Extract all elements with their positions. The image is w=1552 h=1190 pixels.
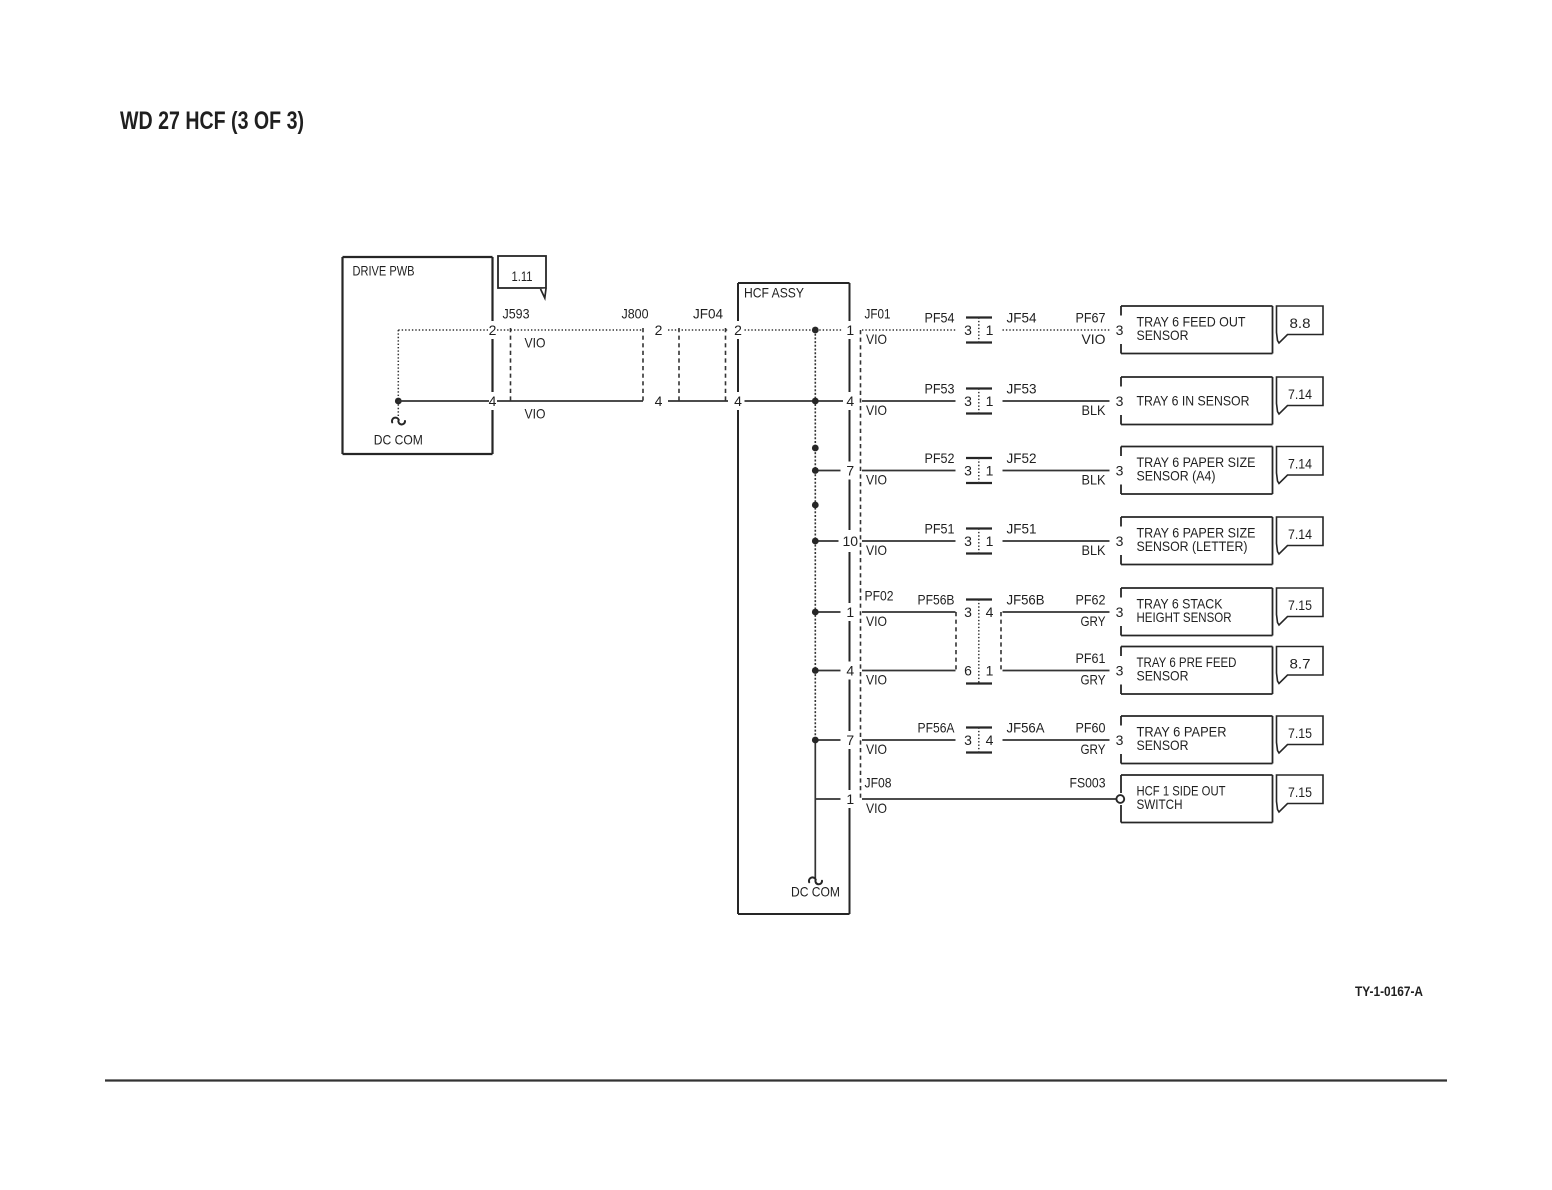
wire PF52 left segment <box>862 470 956 472</box>
svg-text:VIO: VIO <box>525 406 546 422</box>
svg-text:3: 3 <box>964 533 972 549</box>
svg-text:SWITCH: SWITCH <box>1137 796 1183 812</box>
svg-text:3: 3 <box>1116 604 1124 620</box>
svg-text:4: 4 <box>846 393 854 409</box>
svg-text:JF04: JF04 <box>693 306 723 322</box>
svg-text:VIO: VIO <box>866 472 887 488</box>
connector J593 dashed line <box>510 328 512 403</box>
node trunk junction y470.5 <box>812 467 819 474</box>
svg-text:HEIGHT SENSOR: HEIGHT SENSOR <box>1137 609 1232 625</box>
callout flag 1.11 <box>498 256 546 288</box>
node trunk junction y505 <box>812 502 819 509</box>
svg-text:GRY: GRY <box>1081 613 1107 629</box>
svg-text:1: 1 <box>986 663 994 679</box>
svg-text:JF56A: JF56A <box>1007 720 1046 736</box>
wire J593-4 to J800-4 VIO <box>497 400 643 402</box>
wire JF08-1 to FS003 <box>862 798 1116 800</box>
svg-text:3: 3 <box>1116 463 1124 479</box>
connector pair symbol PF53/JF53 <box>966 387 992 389</box>
svg-text:3: 3 <box>1116 732 1124 748</box>
component box TRAY 6 PAPER SIZE SENSOR (A4) <box>1121 446 1273 448</box>
svg-text:VIO: VIO <box>866 402 887 418</box>
svg-text:4: 4 <box>489 393 497 409</box>
wire PF54 left segment <box>862 329 956 331</box>
wire JF52 right segment <box>1003 470 1110 472</box>
svg-text:PF54: PF54 <box>925 310 955 326</box>
wire drive pwb dc com drop <box>397 401 399 417</box>
svg-text:SENSOR: SENSOR <box>1137 327 1189 343</box>
callout flag 7.15 <box>1277 716 1324 753</box>
wire hcf internal row1 <box>745 329 844 331</box>
callout flag 8.8 <box>1277 306 1324 343</box>
svg-text:1: 1 <box>846 322 854 338</box>
wire JF53 right segment <box>1003 400 1110 402</box>
node trunk junction y612 <box>812 609 819 616</box>
svg-text:3: 3 <box>964 393 972 409</box>
svg-text:BLK: BLK <box>1082 542 1107 558</box>
callout flag 7.15 <box>1277 588 1324 625</box>
svg-text:PF56A: PF56A <box>918 720 956 736</box>
svg-text:VIO: VIO <box>1082 331 1106 347</box>
svg-text:1: 1 <box>986 533 994 549</box>
connector PF56B dashed line <box>955 612 957 671</box>
wire hcf ground trunk upper <box>814 330 816 741</box>
svg-text:7: 7 <box>846 732 854 748</box>
svg-text:1: 1 <box>986 463 994 479</box>
dc com squiggle drive pwb <box>392 418 405 425</box>
svg-text:3: 3 <box>1116 322 1124 338</box>
wire hcf ground trunk lower <box>814 741 816 879</box>
svg-text:1: 1 <box>986 322 994 338</box>
node trunk junction y541 <box>812 538 819 545</box>
component box HCF 1 SIDE OUT SWITCH <box>1121 774 1273 776</box>
svg-text:BLK: BLK <box>1082 472 1107 488</box>
connector JF04 dashed line right <box>725 328 727 403</box>
connector JF04 dashed line left <box>678 328 680 403</box>
wire trunk stub row7 <box>815 739 840 741</box>
svg-text:7.14: 7.14 <box>1288 526 1312 542</box>
svg-text:4: 4 <box>655 393 663 409</box>
component box TRAY 6 PAPER SIZE SENSOR (LETTER) <box>1121 516 1273 518</box>
svg-text:PF61: PF61 <box>1076 650 1106 666</box>
svg-text:VIO: VIO <box>866 542 887 558</box>
wire trunk stub row5 <box>815 611 840 613</box>
component box TRAY 6 FEED OUT SENSOR <box>1121 305 1273 307</box>
svg-text:GRY: GRY <box>1081 672 1107 688</box>
svg-text:1: 1 <box>986 393 994 409</box>
svg-text:2: 2 <box>734 322 742 338</box>
svg-text:8.8: 8.8 <box>1290 315 1311 331</box>
wire drive pwb internal pin4 <box>398 400 489 402</box>
svg-text:2: 2 <box>489 322 497 338</box>
svg-text:FS003: FS003 <box>1070 775 1106 791</box>
svg-text:JF51: JF51 <box>1007 521 1037 537</box>
svg-text:7.14: 7.14 <box>1288 386 1312 402</box>
connector pair symbol PF54/JF54 <box>966 316 992 318</box>
svg-text:VIO: VIO <box>866 741 887 757</box>
svg-text:1.11: 1.11 <box>512 268 533 284</box>
svg-text:7.15: 7.15 <box>1288 784 1312 800</box>
wire PF51 left segment <box>862 540 956 542</box>
callout flag 7.14 <box>1277 517 1324 554</box>
svg-text:3: 3 <box>1116 663 1124 679</box>
connector J800 dashed line <box>642 328 644 403</box>
svg-text:7.14: 7.14 <box>1288 456 1312 472</box>
connector pair symbol PF56B/JF56B <box>966 598 992 600</box>
svg-text:4: 4 <box>734 393 742 409</box>
svg-text:WD 27 HCF (3 OF 3): WD 27 HCF (3 OF 3) <box>120 107 304 135</box>
wire trunk stub row6 <box>815 670 840 672</box>
wire JF56B-1 right <box>1003 670 1110 672</box>
component box TRAY 6 IN SENSOR <box>1121 376 1273 378</box>
svg-text:TY-1-0167-A: TY-1-0167-A <box>1355 983 1423 999</box>
svg-text:VIO: VIO <box>866 672 887 688</box>
wire drive pwb internal vertical <box>397 330 399 401</box>
node trunk junction y401 <box>812 398 819 405</box>
svg-text:SENSOR (LETTER): SENSOR (LETTER) <box>1137 538 1248 554</box>
svg-text:4: 4 <box>986 732 994 748</box>
component box TRAY 6 PRE FEED SENSOR <box>1121 646 1273 648</box>
svg-text:7.15: 7.15 <box>1288 597 1312 613</box>
svg-text:PF53: PF53 <box>925 381 955 397</box>
svg-text:3: 3 <box>964 322 972 338</box>
connector pair symbol PF51/JF51 <box>966 527 992 529</box>
callout flag 8.7 <box>1277 647 1324 684</box>
svg-text:JF01: JF01 <box>865 306 891 322</box>
svg-text:PF52: PF52 <box>925 450 955 466</box>
wire drive pwb internal pin2 <box>398 329 488 331</box>
callout flag 7.15 <box>1277 775 1324 812</box>
dc com squiggle hcf <box>809 877 822 884</box>
svg-text:VIO: VIO <box>866 800 887 816</box>
svg-text:DRIVE PWB: DRIVE PWB <box>353 263 415 279</box>
wire JF56B-4 right <box>1003 611 1110 613</box>
wire PF56B-6 left <box>862 670 956 672</box>
svg-text:4: 4 <box>986 604 994 620</box>
svg-text:BLK: BLK <box>1082 402 1107 418</box>
svg-text:PF67: PF67 <box>1076 310 1106 326</box>
svg-text:VIO: VIO <box>866 331 887 347</box>
wire hcf internal row2 <box>745 400 844 402</box>
svg-text:2: 2 <box>655 322 663 338</box>
switch terminal FS003 <box>1116 795 1124 803</box>
svg-text:PF51: PF51 <box>925 521 955 537</box>
svg-text:JF54: JF54 <box>1007 310 1037 326</box>
svg-text:3: 3 <box>964 463 972 479</box>
callout flag 7.14 <box>1277 377 1324 414</box>
svg-text:6: 6 <box>964 663 972 679</box>
svg-text:10: 10 <box>843 533 859 549</box>
node trunk junction y740 <box>812 737 819 744</box>
wire JF56A right <box>1003 739 1110 741</box>
wire PF56A left <box>862 739 956 741</box>
wire JF54 right segment <box>1003 329 1110 331</box>
component box TRAY 6 STACK HEIGHT SENSOR <box>1121 587 1273 589</box>
svg-text:SENSOR (A4): SENSOR (A4) <box>1137 468 1216 484</box>
svg-text:VIO: VIO <box>866 613 887 629</box>
node drive pwb junction <box>395 398 402 405</box>
svg-text:7: 7 <box>846 463 854 479</box>
wire trunk stub row3 <box>815 470 840 472</box>
connector dashed line JF01-PF02-JF08 <box>860 330 862 799</box>
svg-text:3: 3 <box>964 732 972 748</box>
svg-text:TRAY 6 IN SENSOR: TRAY 6 IN SENSOR <box>1137 393 1250 409</box>
wire trunk stub row4 <box>815 540 838 542</box>
wire PF56B-3 left <box>862 611 956 613</box>
wire J593-2 to J800-2 VIO <box>497 329 643 331</box>
svg-text:PF60: PF60 <box>1076 720 1106 736</box>
svg-text:3: 3 <box>964 604 972 620</box>
node trunk junction y330 <box>812 327 819 334</box>
callout flag 7.14 <box>1277 447 1324 484</box>
connector JF56B dashed line <box>1000 612 1002 671</box>
svg-text:3: 3 <box>1116 533 1124 549</box>
svg-text:JF08: JF08 <box>865 775 892 791</box>
svg-text:JF56B: JF56B <box>1007 592 1045 608</box>
connector pair symbol PF56A/JF56A <box>966 726 992 728</box>
connector pair symbol PF52/JF52 <box>966 457 992 459</box>
svg-text:1: 1 <box>846 791 854 807</box>
svg-text:JF53: JF53 <box>1007 381 1037 397</box>
wire JF51 right segment <box>1003 540 1110 542</box>
footer rule <box>105 1079 1447 1081</box>
wire J800-4 to JF04-4 <box>668 400 728 402</box>
node trunk junction y448 <box>812 445 819 452</box>
wire PF53 left segment <box>862 400 956 402</box>
svg-text:VIO: VIO <box>525 335 546 351</box>
svg-text:HCF ASSY: HCF ASSY <box>744 285 805 301</box>
svg-text:3: 3 <box>1116 393 1124 409</box>
svg-text:PF62: PF62 <box>1076 592 1106 608</box>
drive pwb board box <box>343 256 493 258</box>
component box TRAY 6 PAPER SENSOR <box>1121 715 1273 717</box>
svg-text:SENSOR: SENSOR <box>1137 668 1189 684</box>
svg-text:DC COM: DC COM <box>791 884 840 900</box>
svg-text:J593: J593 <box>503 306 530 322</box>
svg-text:J800: J800 <box>622 306 649 322</box>
wire trunk stub row8 <box>815 798 840 800</box>
svg-text:PF02: PF02 <box>865 588 894 604</box>
svg-text:8.7: 8.7 <box>1290 656 1311 672</box>
svg-text:PF56B: PF56B <box>918 592 955 608</box>
svg-text:7.15: 7.15 <box>1288 725 1312 741</box>
svg-text:JF52: JF52 <box>1007 450 1037 466</box>
wire J800-2 to JF04-2 <box>668 329 728 331</box>
hcf assy box <box>738 282 850 284</box>
svg-text:GRY: GRY <box>1081 741 1107 757</box>
svg-text:DC COM: DC COM <box>374 432 423 448</box>
svg-text:SENSOR: SENSOR <box>1137 737 1189 753</box>
svg-text:4: 4 <box>846 663 854 679</box>
node trunk junction y670.5 <box>812 667 819 674</box>
svg-text:1: 1 <box>846 604 854 620</box>
